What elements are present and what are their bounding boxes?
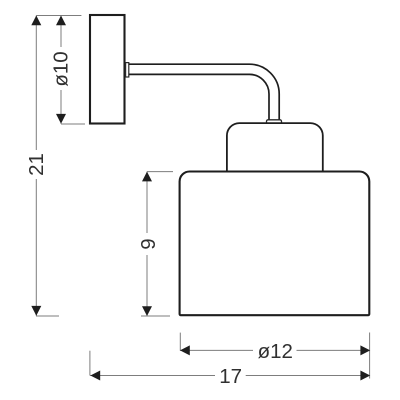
ferrule above lamp holder: [267, 120, 282, 124]
dim o12 line: [180, 349, 253, 351]
svg-text:17: 17: [219, 365, 242, 388]
svg-text:21: 21: [25, 153, 48, 176]
dim 9 arrow down: [142, 306, 152, 316]
arm tube inner line: [129, 74, 269, 119]
dim 17 line: [90, 375, 215, 377]
dim 21 arrow down: [31, 306, 41, 316]
dim o10 arrow down: [56, 114, 66, 124]
dim 21 extension line top: [36, 15, 81, 17]
dim o12 witness line right: [369, 333, 371, 379]
dim o10 extension line bottom: [61, 123, 85, 125]
dim o10 arrow up: [56, 16, 66, 26]
dim 9 arrow up: [142, 172, 152, 182]
svg-text:9: 9: [137, 238, 160, 249]
arm collar at plate: [126, 63, 129, 77]
dim o12 witness line left: [179, 333, 181, 351]
dim 17 arrow left: [90, 371, 100, 381]
dim 21 extension line bottom: [36, 315, 59, 317]
dim o12 arrow left: [180, 345, 190, 355]
lamp holder: [227, 123, 323, 172]
dim 17 arrow right: [360, 371, 370, 381]
dim o12 arrow right: [360, 345, 370, 355]
dim 9 extension line bottom: [141, 315, 170, 317]
dim 9 line: [146, 172, 148, 233]
dim o10 line: [60, 16, 62, 48]
dim 21 line: [35, 16, 37, 151]
wall mount plate: [90, 15, 125, 124]
dim 9 extension line top: [147, 171, 173, 173]
svg-text:ø12: ø12: [258, 340, 293, 363]
lamp shade: [180, 172, 370, 316]
arm tube outer line: [129, 64, 279, 119]
svg-text:ø10: ø10: [50, 51, 73, 86]
dim 17 witness line left: [89, 351, 91, 376]
dim 21 arrow up: [31, 16, 41, 26]
